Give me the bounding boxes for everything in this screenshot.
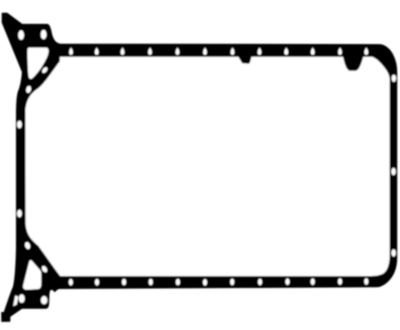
bottom-left tab window [23, 260, 41, 290]
right rail bolt holes [391, 75, 396, 257]
bottom tab strut hole [41, 265, 49, 273]
bottom tab block hole left [19, 294, 25, 303]
top tab bolt hole right [41, 30, 47, 40]
top rail bolt holes [69, 48, 368, 55]
top tab strut hole [41, 66, 48, 74]
bottom-left junction hole [24, 241, 31, 250]
main ring inner opening [25, 57, 389, 276]
top tab bolt hole left [18, 30, 24, 40]
sliver gap between lower leg and bolt block [13, 296, 18, 307]
top-left tab window [27, 48, 48, 79]
bottom rail bolt holes [69, 278, 369, 286]
bottom tab block hole right [41, 296, 47, 304]
left band hole lower [17, 210, 22, 218]
top-left junction hole [25, 85, 31, 93]
left band hole upper [17, 121, 22, 129]
